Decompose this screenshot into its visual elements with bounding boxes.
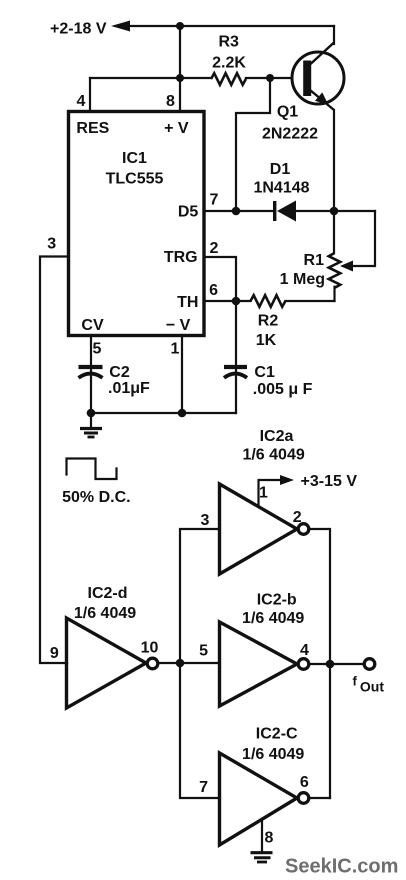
svg-text:5: 5	[93, 341, 102, 358]
svg-text:f: f	[353, 674, 358, 689]
svg-text:TH: TH	[177, 294, 198, 311]
svg-text:SeekIC.com: SeekIC.com	[285, 856, 398, 878]
svg-text:1/6 4049: 1/6 4049	[242, 746, 304, 763]
svg-text:6: 6	[209, 282, 218, 299]
svg-text:9: 9	[50, 645, 59, 662]
svg-text:2.2K: 2.2K	[212, 55, 246, 72]
svg-text:+2-18 V: +2-18 V	[50, 21, 107, 38]
svg-text:1 Meg: 1 Meg	[280, 271, 325, 288]
svg-text:+3-15 V: +3-15 V	[301, 473, 358, 490]
svg-text:RES: RES	[76, 120, 109, 137]
svg-text:CV: CV	[81, 317, 104, 334]
svg-text:IC1: IC1	[122, 150, 147, 167]
svg-text:1N4148: 1N4148	[253, 180, 309, 197]
svg-text:.01μF: .01μF	[108, 380, 150, 397]
svg-text:− V: − V	[166, 317, 191, 334]
svg-text:50% D.C.: 50% D.C.	[62, 489, 130, 506]
svg-text:5: 5	[199, 643, 208, 660]
svg-text:IC2-b: IC2-b	[257, 592, 297, 609]
svg-text:1: 1	[171, 341, 180, 358]
svg-text:1/6 4049: 1/6 4049	[74, 605, 136, 622]
svg-text:C2: C2	[109, 364, 130, 381]
svg-text:3: 3	[47, 236, 56, 253]
svg-text:.005 μ F: .005 μ F	[253, 381, 313, 398]
svg-text:4: 4	[77, 93, 86, 110]
svg-text:TLC555: TLC555	[106, 171, 164, 188]
svg-text:3: 3	[200, 512, 209, 529]
svg-text:2: 2	[210, 240, 219, 257]
svg-text:1: 1	[259, 485, 268, 502]
svg-text:IC2-C: IC2-C	[256, 726, 298, 743]
svg-text:C1: C1	[254, 364, 275, 381]
svg-text:7: 7	[210, 192, 219, 209]
svg-text:1/6 4049: 1/6 4049	[242, 610, 304, 627]
svg-text:1K: 1K	[256, 332, 277, 349]
svg-text:8: 8	[265, 830, 274, 847]
svg-text:7: 7	[199, 779, 208, 796]
svg-text:+ V: + V	[164, 120, 189, 137]
svg-text:2N2222: 2N2222	[262, 126, 318, 143]
svg-text:8: 8	[166, 93, 175, 110]
svg-text:10: 10	[141, 640, 159, 657]
svg-text:R2: R2	[258, 313, 279, 330]
svg-text:D5: D5	[178, 204, 199, 221]
svg-text:6: 6	[300, 774, 309, 791]
svg-text:4: 4	[300, 642, 309, 659]
svg-text:TRG: TRG	[164, 249, 198, 266]
svg-text:1/6 4049: 1/6 4049	[242, 447, 304, 464]
svg-text:IC2-d: IC2-d	[88, 585, 128, 602]
svg-text:R1: R1	[304, 252, 325, 269]
svg-text:IC2a: IC2a	[260, 428, 294, 445]
svg-text:D1: D1	[270, 161, 291, 178]
svg-text:Q1: Q1	[277, 104, 298, 121]
svg-text:2: 2	[293, 509, 302, 526]
svg-text:R3: R3	[218, 34, 239, 51]
svg-text:Out: Out	[360, 679, 384, 695]
